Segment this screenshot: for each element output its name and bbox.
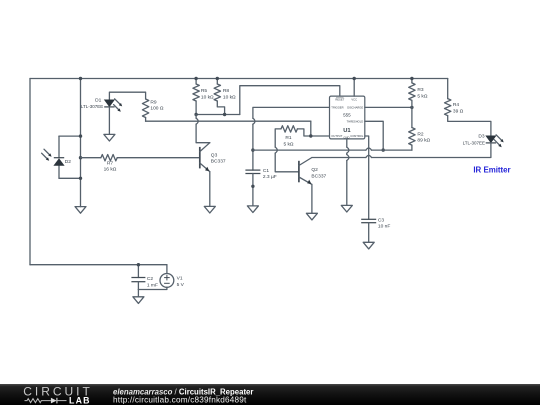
svg-text:R5: R5 — [201, 88, 207, 94]
svg-text:BC337: BC337 — [211, 159, 226, 165]
svg-text:OUTPUT: OUTPUT — [331, 134, 342, 138]
svg-text:V1: V1 — [177, 276, 183, 282]
resistor R2 89 kOhm — [411, 107, 413, 127]
ground below second rail — [75, 207, 86, 214]
svg-text:U1: U1 — [343, 128, 351, 134]
transistor Q3 BC337 — [199, 147, 201, 169]
svg-text:LAB: LAB — [69, 395, 91, 405]
svg-text:R3: R3 — [417, 87, 423, 93]
svg-text:LTL-307EE: LTL-307EE — [463, 141, 485, 146]
svg-text:DISCHARGE: DISCHARGE — [347, 105, 363, 109]
wire top power rail — [30, 78, 448, 80]
svg-text:5 kΩ: 5 kΩ — [417, 93, 427, 99]
wire TRIGGER to C1 node (hops over R9-output wire) — [253, 107, 330, 118]
svg-text:D1: D1 — [95, 97, 101, 103]
resistor R5 10 kOhm — [195, 79, 197, 85]
svg-text:D2: D2 — [65, 159, 71, 165]
voltage source V1 5V — [166, 265, 168, 274]
svg-text:R9: R9 — [150, 99, 156, 105]
svg-text:39 Ω: 39 Ω — [453, 108, 464, 114]
555 timer U1 box — [330, 96, 365, 139]
wire R5/R8 common node — [196, 114, 240, 116]
svg-text:16 kΩ: 16 kΩ — [104, 167, 117, 173]
resistor R1 5 kOhm (555 output to Q2 base) — [281, 126, 297, 132]
ground below Q3 — [204, 206, 215, 213]
svg-text:IR Emitter: IR Emitter — [473, 166, 510, 175]
wire D2 loop left lower — [58, 165, 60, 178]
svg-text:Q3: Q3 — [211, 152, 218, 158]
LED D3 LTL-307EE (IR emitter) — [486, 136, 496, 143]
ground below Q2 — [306, 213, 317, 220]
wire CONTROL to C3 — [365, 136, 369, 219]
svg-text:THRESHOLD: THRESHOLD — [347, 119, 364, 123]
capacitor C1 2.3 uF — [245, 169, 260, 171]
svg-text:TRIGGER: TRIGGER — [331, 105, 343, 109]
transistor Q2 BC337 — [298, 161, 300, 183]
node junction D2 bottom on rail — [79, 177, 82, 180]
svg-text:5 kΩ: 5 kΩ — [283, 141, 293, 147]
wire DISCHARGE to R3/R2 node — [365, 106, 412, 108]
wire D3 cathode down and left to Q2 collector (hops over control wire) — [372, 143, 491, 157]
svg-text:R1: R1 — [285, 135, 291, 141]
resistor R4 39 Ohm — [447, 79, 449, 99]
wire node down to Q3 collector (hops over horizontal) — [195, 115, 197, 119]
wire R9 to 555 output node (long horizontal) — [146, 120, 311, 122]
wire D1-R9 loop top — [109, 92, 145, 100]
ground below C1 — [247, 206, 258, 213]
wire GND pin to ground (hops over two horizontals) — [346, 139, 348, 147]
resistor R7 16 kOhm — [101, 155, 117, 161]
wire THRESHOLD to R2 bottom node — [365, 121, 383, 150]
wire D2 loop bottom — [59, 177, 81, 179]
svg-text:1 mF: 1 mF — [147, 282, 158, 288]
ground below 555 GND — [341, 205, 352, 212]
wire bottom supply — [30, 264, 167, 266]
svg-text:CONTROL: CONTROL — [350, 134, 364, 138]
svg-text:89 kΩ: 89 kΩ — [417, 138, 430, 144]
node junction rail2 on top rail — [79, 77, 82, 80]
wire D2 loop left upper — [58, 136, 60, 158]
svg-text:R8: R8 — [223, 88, 229, 94]
wire VCC to top rail — [353, 79, 355, 97]
svg-text:10 nF: 10 nF — [378, 223, 390, 229]
svg-text:R7: R7 — [107, 160, 113, 166]
photodiode D2 LTL-307EE — [54, 157, 64, 159]
svg-text:10 kΩ: 10 kΩ — [201, 94, 214, 100]
svg-text:http://circuitlab.com/c839fnkd: http://circuitlab.com/c839fnkd6489t — [113, 396, 247, 405]
wire threshold node horizontal y150 (hops over control wire) — [253, 149, 366, 151]
wire node to 555 RESET — [240, 86, 340, 115]
svg-text:C1: C1 — [263, 168, 269, 174]
node junction D2 top on rail — [79, 134, 82, 137]
resistor R3 5 kOhm — [411, 79, 413, 83]
LED D1 — [104, 100, 114, 107]
svg-text:BC337: BC337 — [311, 173, 326, 179]
resistor R9 100 Ohm — [142, 99, 148, 118]
ground below C3 — [363, 242, 374, 249]
wire second rail (detector branch) — [80, 79, 82, 207]
wire left rail — [29, 79, 31, 265]
ground below supply — [133, 297, 144, 304]
wire D2 loop top — [59, 135, 81, 137]
resistor R8 10 kOhm — [216, 79, 218, 85]
svg-text:C3: C3 — [378, 218, 384, 224]
node junction R7 on rail — [79, 156, 82, 159]
svg-text:LTL-307EE: LTL-307EE — [81, 104, 103, 109]
svg-text:D3: D3 — [478, 134, 484, 140]
svg-text:R4: R4 — [453, 102, 459, 108]
ground below D1 — [104, 134, 115, 141]
svg-text:VCC: VCC — [351, 97, 357, 101]
wire C2/V1 bottom to ground — [137, 290, 139, 297]
svg-text:2.3 µF: 2.3 µF — [263, 174, 277, 180]
capacitor C2 1 mF — [137, 265, 139, 278]
svg-text:10 kΩ: 10 kΩ — [223, 94, 236, 100]
capacitor C3 10 nF — [361, 218, 376, 220]
svg-text:Q2: Q2 — [311, 167, 318, 173]
wire R1 left to Q2 base (hops over threshold wire) — [275, 129, 281, 147]
wire D1 cathode to ground — [108, 107, 110, 134]
svg-text:C2: C2 — [147, 276, 153, 282]
svg-text:5 V: 5 V — [177, 282, 185, 288]
svg-text:555: 555 — [343, 113, 351, 118]
svg-text:R2: R2 — [417, 131, 423, 137]
svg-text:100 Ω: 100 Ω — [150, 106, 163, 112]
svg-text:RESET: RESET — [335, 97, 344, 101]
